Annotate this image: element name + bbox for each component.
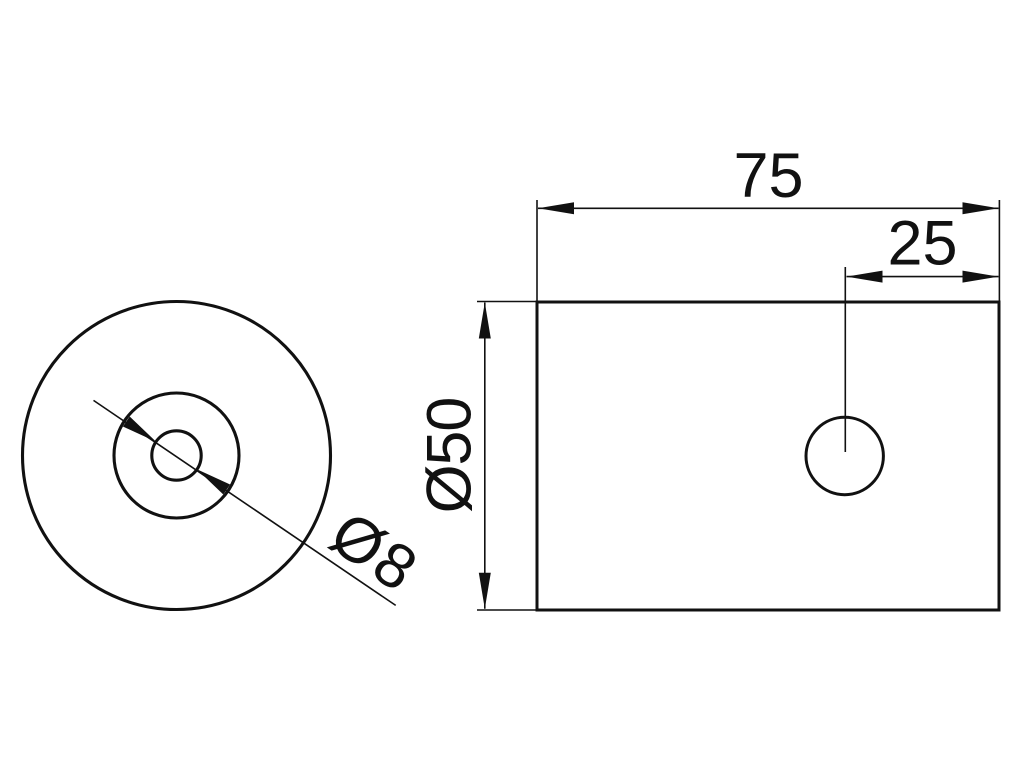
svg-text:Ø50: Ø50 bbox=[415, 398, 485, 513]
Ø50 dimension bottom arrowhead bbox=[479, 573, 491, 609]
Ø8 dimension arrowhead upper-left bbox=[123, 417, 156, 442]
hole centre extension line for 25 dimension bbox=[844, 267, 846, 452]
extension line left of 75 dimension bbox=[536, 200, 538, 302]
front view hole circle Ø8 bbox=[152, 431, 201, 480]
25 dimension right arrowhead bbox=[963, 271, 999, 283]
side view hole circle bbox=[806, 417, 883, 494]
75 dimension right arrowhead bbox=[963, 202, 999, 214]
extension line right of 75 and 25 dimensions bbox=[998, 200, 1000, 302]
25 dimension left arrowhead bbox=[847, 271, 883, 283]
Ø8 diameter dimension line (diagonal) bbox=[94, 400, 396, 605]
svg-text:25: 25 bbox=[887, 209, 957, 279]
front view counterbore circle bbox=[114, 393, 239, 518]
svg-text:75: 75 bbox=[733, 141, 803, 211]
25 dimension line bbox=[847, 276, 999, 278]
Ø8 dimension arrowhead lower-right bbox=[197, 469, 230, 494]
Ø50 dimension line bbox=[484, 303, 486, 609]
front view outer circle Ø50 bbox=[23, 302, 331, 610]
extension line top of Ø50 dimension bbox=[477, 301, 537, 303]
75 dimension left arrowhead bbox=[538, 202, 574, 214]
Ø50 dimension top arrowhead bbox=[479, 303, 491, 339]
side view body rectangle 75 x 50 bbox=[537, 302, 999, 610]
extension line bottom of Ø50 dimension bbox=[477, 609, 537, 611]
75 dimension line bbox=[538, 207, 999, 209]
